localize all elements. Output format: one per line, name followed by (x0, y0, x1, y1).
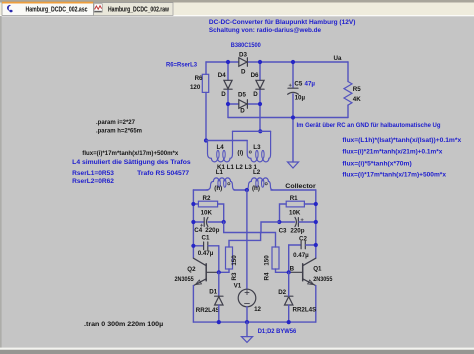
svg-text:12: 12 (254, 306, 261, 313)
wire Q2 collector column (192, 190, 194, 258)
wire R5 top lead (347, 62, 349, 82)
junction node D2 bottom (287, 320, 291, 324)
svg-text:4K: 4K (353, 96, 361, 103)
tab bar background (0, 0, 474, 16)
junction node Q1 base (287, 270, 291, 274)
wire transformer top link (233, 130, 271, 132)
junction node C3 right (314, 220, 318, 224)
svg-text:(i): (i) (237, 150, 243, 157)
svg-text:Ua: Ua (334, 55, 342, 62)
comment text R6=RserL3 (166, 62, 197, 69)
resistor R2 (198, 195, 217, 217)
inductor L1 (206, 169, 235, 192)
svg-text:D1;D2 BYW56: D1;D2 BYW56 (258, 328, 297, 335)
status bar (0, 348, 474, 354)
junction node R2 left (191, 202, 195, 206)
svg-text:flux=(i)*21m*tanh(x/21m)+0.1m*: flux=(i)*21m*tanh(x/21m)+0.1m*x (342, 149, 442, 156)
wire C1 right down to Q2 base (218, 246, 220, 272)
svg-text:R4: R4 (264, 272, 271, 280)
junction node C4 left (191, 220, 195, 224)
svg-text:10µ: 10µ (295, 95, 306, 102)
svg-text:Hamburg_DCDC_002.raw: Hamburg_DCDC_002.raw (108, 7, 169, 14)
wire top rail right segment to Ua (247, 61, 348, 63)
svg-text:D4: D4 (218, 72, 226, 79)
svg-text:D: D (240, 108, 245, 115)
svg-text:Collector: Collector (285, 183, 316, 190)
SCHEMATIC_CONTENT (72, 19, 462, 335)
svg-text:0.47µ: 0.47µ (293, 252, 309, 259)
svg-text:0.47µ: 0.47µ (198, 250, 214, 257)
wire D1 top lead (218, 272, 220, 296)
svg-text:(h): (h) (252, 185, 260, 192)
wire bridge bottom rail (228, 117, 348, 119)
svg-text:10K: 10K (289, 210, 301, 217)
svg-text:L2: L2 (253, 169, 261, 176)
svg-text:DC-DC-Converter für Blaupunkt: DC-DC-Converter für Blaupunkt Hamburg (1… (209, 19, 356, 26)
spice directive .param h (96, 128, 142, 135)
junction node D3 cathode (258, 60, 262, 64)
svg-text:.tran 0 300m 220m 100µ: .tran 0 300m 220m 100µ (84, 321, 164, 328)
junction node R1 right (314, 202, 318, 206)
diode D2 (278, 289, 316, 314)
svg-text:D: D (221, 91, 226, 98)
svg-text:RserL2=0R62: RserL2=0R62 (72, 178, 114, 185)
svg-text:C4: C4 (194, 227, 202, 234)
resistor R5 (344, 82, 361, 106)
comment text title line 2 (209, 27, 322, 34)
wire L2 right lead to collector wire (271, 189, 316, 191)
svg-text:D3: D3 (239, 52, 247, 59)
junction node D4-D5 (226, 102, 230, 106)
svg-text:R6: R6 (195, 75, 203, 82)
spice directive .tran (84, 321, 164, 328)
wire L1 left lead to Q2 collector column (193, 189, 208, 191)
capacitor C5 polarized (288, 81, 316, 102)
svg-text:C1: C1 (202, 235, 210, 242)
svg-text:RR2L4S: RR2L4S (196, 307, 220, 314)
wire coupling route C4right to C3left (224, 222, 280, 233)
wire R4 bottom lead to Q1 base node (276, 269, 289, 272)
junction node C3 left (277, 220, 281, 224)
comment text RserL1 (72, 170, 114, 177)
svg-text:D5: D5 (238, 91, 246, 98)
diode D1 (196, 289, 223, 315)
comment text D1;D2 BYW56 (258, 328, 297, 335)
wire C5 bottom lead (292, 94, 294, 118)
capacitor C3 polarized (279, 217, 316, 234)
SECTION_BRIDGE (190, 52, 361, 169)
label (i) of L4 (237, 150, 243, 157)
svg-text:flux=(i)*17m*tanh(x/17m)+500m*: flux=(i)*17m*tanh(x/17m)+500m*x (82, 150, 179, 157)
capacitor C4 polarized (193, 217, 223, 234)
junction node secondary right top (258, 129, 262, 133)
svg-text:D2: D2 (278, 289, 286, 296)
svg-text:RR2L4S: RR2L4S (293, 307, 317, 314)
wire R2 right lead down to C4 right node (218, 204, 224, 222)
wire R6 bottom to transformer junction (205, 92, 207, 140)
inactive tab icon (waveform) (94, 4, 102, 12)
junction node V1 bottom (245, 320, 249, 324)
svg-text:R1: R1 (290, 195, 298, 202)
svg-text:B380C1500: B380C1500 (231, 42, 261, 49)
svg-text:flux=(i)*17m*tanh(x/17m)+500m*: flux=(i)*17m*tanh(x/17m)+500m*x (342, 171, 446, 178)
svg-text:Q1: Q1 (313, 265, 322, 272)
comment text flux formula 3 (342, 160, 411, 167)
comment text L4 simuliert (72, 159, 191, 166)
wire top rail left segment (206, 61, 239, 63)
transistor Q2 mirrored NPN (175, 258, 219, 285)
transistor Q1 NPN (289, 258, 333, 285)
svg-text:2N3055: 2N3055 (313, 276, 333, 283)
wire C5 top lead (292, 62, 294, 87)
wire emitter bottom rail (193, 321, 315, 323)
wire ground stub from bridge bottom (292, 118, 294, 163)
spice directive .param i (96, 119, 135, 126)
svg-text:.param h=2*65m: .param h=2*65m (96, 128, 142, 135)
svg-text:L3: L3 (253, 144, 261, 151)
resistor R3 (226, 247, 238, 280)
junction node C4 right (222, 220, 226, 224)
svg-text:R5: R5 (353, 86, 361, 93)
svg-text:B: B (290, 265, 295, 272)
wire D2 top lead (288, 272, 290, 296)
diode D5 (238, 91, 247, 114)
svg-text:220p: 220p (205, 227, 219, 234)
wire R1 left lead down to C3 left node (280, 204, 287, 222)
svg-text:Q2: Q2 (187, 266, 196, 273)
inductor L4 (208, 131, 233, 162)
svg-text:Trafo RS 504577: Trafo RS 504577 (137, 170, 189, 177)
resistor R4 (264, 247, 279, 280)
label B at Q1 base (290, 265, 295, 272)
svg-text:L4: L4 (217, 144, 225, 151)
diode D4 (218, 72, 232, 98)
ground symbol near transformer (288, 162, 299, 168)
svg-text:L1: L1 (216, 169, 224, 176)
active tab Hamburg_DCDC_002.asc (2, 2, 94, 16)
diode D3 (239, 52, 248, 76)
svg-text:2N3055: 2N3055 (175, 276, 195, 283)
svg-text:C3: C3 (279, 227, 287, 234)
wire ground stub bottom (246, 322, 248, 337)
junction node center tap (245, 188, 249, 192)
junction node C1 left (191, 244, 195, 248)
ground symbol bottom (241, 337, 252, 343)
resistor R6 (190, 74, 209, 92)
wire center tap down to V1 (246, 190, 248, 289)
wire D6 bottom down to transformer top (259, 89, 261, 131)
comment text B380C1500 (231, 42, 261, 49)
junction node C2 right (314, 243, 318, 247)
wire Q2 emitter down (192, 286, 194, 323)
svg-text:Im Gerät über RC an GND für ha: Im Gerät über RC an GND für halbautomati… (297, 122, 441, 129)
svg-text:K1 L1 L2 L3 1: K1 L1 L2 L3 1 (217, 164, 258, 171)
wire D4 top lead from node (227, 62, 229, 80)
wire D5 right lead (247, 103, 260, 105)
diode D6 (251, 72, 265, 98)
wire Q1 collector column (315, 190, 317, 258)
svg-text:(h): (h) (214, 185, 222, 192)
comment text Im Geraet ueber RC an GND (297, 122, 441, 129)
comment text flux formula 1 (342, 137, 461, 144)
active tab icon (LTspice schematic glyph) (7, 5, 13, 12)
voltage source V1 (234, 283, 262, 314)
comment text RserL2 (72, 178, 114, 185)
svg-text:R6=RserL3: R6=RserL3 (166, 62, 197, 69)
svg-text:R2: R2 (203, 195, 211, 202)
wire R4 top route (261, 233, 276, 248)
wire R3 top route (229, 233, 261, 248)
svg-text:R3: R3 (231, 272, 238, 280)
wire R6 top lead (205, 62, 207, 74)
inactive tab Hamburg_DCDC_002.raw (94, 3, 174, 16)
svg-text:flux=(L1h)*(Isat)*tanh(x/(Isat: flux=(L1h)*(Isat)*tanh(x/(Isat))+0.1m*x (342, 137, 461, 144)
inductor L2 (245, 169, 273, 192)
comment text flux formula 2 (342, 149, 442, 156)
capacitor C2 (289, 235, 316, 258)
left window border (0, 16, 2, 348)
wire inner link left node to L3 left riser (206, 140, 247, 142)
wire R2 left lead (193, 203, 198, 205)
capacitor C1 (193, 235, 218, 258)
wire C2 left down to Q1 base (288, 245, 290, 272)
svg-text:C5: C5 (294, 81, 302, 88)
wire D2 bottom lead (288, 305, 290, 322)
svg-text:D: D (253, 91, 258, 98)
svg-text:L4 simuliert die Sättigung des: L4 simuliert die Sättigung des Trafos (72, 159, 191, 166)
svg-text:C2: C2 (299, 235, 307, 242)
SECTION_COUPLING (191, 195, 318, 281)
SECTION_TRAFO (193, 129, 316, 289)
svg-text:D1: D1 (209, 289, 217, 296)
wire D1 bottom lead (218, 305, 220, 322)
wire R1 right lead (304, 203, 315, 205)
svg-text:150: 150 (231, 255, 238, 266)
svg-text:47µ: 47µ (305, 81, 316, 88)
junction node C5 top (291, 60, 295, 64)
junction node secondary left (204, 138, 208, 142)
junction node C5 bottom (291, 115, 295, 119)
wire D4 bottom through D5 node down to bridge bottom rail (227, 89, 229, 117)
SECTION_OUTPUT (175, 258, 333, 342)
resistor R1 (286, 195, 304, 217)
svg-text:150: 150 (264, 255, 271, 266)
svg-text:Schaltung von: radio-darius@we: Schaltung von: radio-darius@web.de (209, 27, 322, 34)
junction node D3 anode (226, 60, 230, 64)
svg-text:.param i=2*27: .param i=2*27 (96, 119, 135, 126)
svg-text:120: 120 (190, 84, 201, 91)
wire D5 left lead (228, 103, 239, 105)
node Ua label (334, 55, 342, 62)
svg-text:V1: V1 (234, 283, 242, 290)
svg-text:RserL1=0R53: RserL1=0R53 (72, 170, 114, 177)
svg-text:flux=(i)*5*tanh(x*70m): flux=(i)*5*tanh(x*70m) (342, 160, 411, 167)
label Collector (285, 183, 316, 190)
comment text title line 1 (209, 19, 356, 26)
junction node D5-D6 (258, 102, 262, 106)
inductor L3 (247, 131, 270, 162)
wire Q1 emitter down (315, 286, 317, 323)
wire center tap L1-L2 (234, 189, 246, 191)
comment text Trafo RS 504577 (137, 170, 189, 177)
spice directive flux expression (82, 150, 179, 157)
svg-text:220p: 220p (290, 227, 304, 234)
wire V1 bottom lead (246, 307, 248, 322)
svg-text:10K: 10K (201, 210, 213, 217)
comment text flux formula 4 (342, 171, 446, 178)
wire R5 bottom lead (347, 105, 349, 117)
spice directive K1 coupling (217, 164, 258, 171)
wire R3 bottom lead to Q2 base node (219, 269, 229, 272)
svg-text:D: D (241, 69, 246, 76)
svg-text:D6: D6 (251, 72, 259, 79)
junction node D1 bottom (217, 320, 221, 324)
svg-text:Hamburg_DCDC_002.asc: Hamburg_DCDC_002.asc (26, 7, 88, 14)
wire D6 top lead from node (259, 62, 261, 80)
junction node Q2 base (217, 270, 221, 274)
